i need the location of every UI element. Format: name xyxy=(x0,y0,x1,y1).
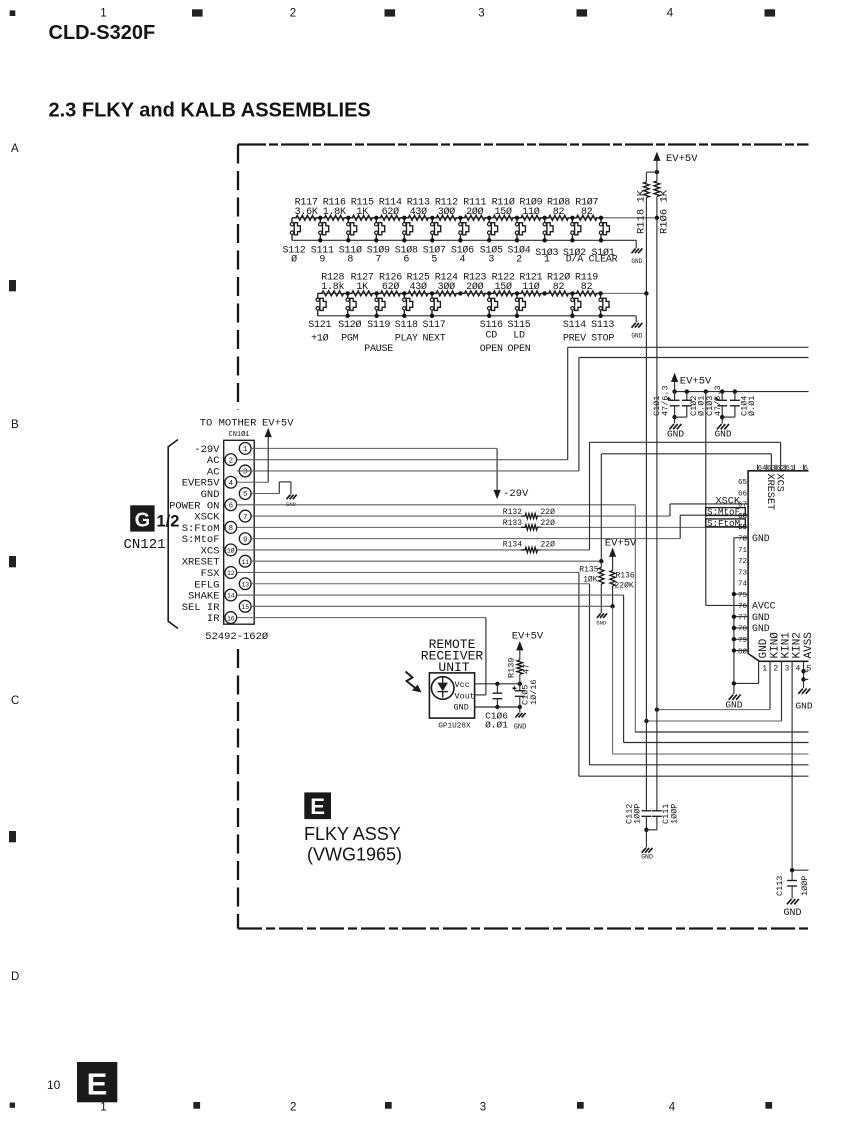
wire XSCK rise to IC pin 67 xyxy=(669,504,671,516)
resistor R110 xyxy=(489,197,517,221)
wire pin10 XCS with resistor R134 220 xyxy=(237,540,589,552)
remote receiver unit heading xyxy=(421,637,484,675)
AVSS pin joints and ground xyxy=(795,669,812,712)
svg-text:76: 76 xyxy=(738,603,748,611)
wire pin14 SHAKE to bus2 xyxy=(237,594,623,596)
connector CN101 body xyxy=(224,440,255,624)
IC bottom pin names GND KIN0 KIN1 KIN2 AVSS xyxy=(758,632,815,659)
svg-text:52492-162Ø: 52492-162Ø xyxy=(205,631,268,643)
svg-text:PGM: PGM xyxy=(341,334,359,345)
svg-text:1: 1 xyxy=(544,255,550,266)
svg-text:CN1Ø1: CN1Ø1 xyxy=(229,430,250,439)
resistor R136 220K pull-up from EV+5V xyxy=(605,538,637,607)
reference box G 1/2 xyxy=(130,505,179,531)
svg-text:69: 69 xyxy=(738,524,747,532)
svg-text:GND: GND xyxy=(631,333,642,340)
svg-text:E: E xyxy=(310,794,325,819)
switch S105 xyxy=(480,216,503,266)
svg-text:Ø.Ø1: Ø.Ø1 xyxy=(485,719,508,730)
svg-text:R135: R135 xyxy=(579,566,598,575)
svg-text:82: 82 xyxy=(581,207,593,218)
svg-text:74: 74 xyxy=(738,581,748,589)
junction row2 chain to R118 xyxy=(644,291,648,295)
resistor R108 xyxy=(545,197,573,221)
wire row2 net vertical to C112 xyxy=(645,293,647,810)
svg-text:GND: GND xyxy=(641,854,653,861)
svg-text:1Ø: 1Ø xyxy=(227,547,235,555)
svg-text:3: 3 xyxy=(480,1102,486,1114)
capacitor C106 0.01 xyxy=(485,684,508,731)
svg-text:GND: GND xyxy=(667,429,684,440)
svg-text:1: 1 xyxy=(100,8,106,20)
svg-text:79: 79 xyxy=(738,637,747,645)
svg-text:3: 3 xyxy=(785,664,790,673)
wire pin2 AC xyxy=(237,459,568,461)
svg-text:13: 13 xyxy=(241,581,249,588)
svg-text:62: 62 xyxy=(776,465,785,473)
wire KIN2 stub to page edge xyxy=(792,869,808,871)
svg-text:47/6.3: 47/6.3 xyxy=(713,385,723,416)
resistor R139 47 from EV+5V xyxy=(507,631,544,684)
svg-text:B: B xyxy=(11,419,19,431)
svg-text:15: 15 xyxy=(241,604,249,611)
switch S101 xyxy=(589,216,618,266)
svg-text:EV+5V: EV+5V xyxy=(512,631,544,643)
resistor R113 xyxy=(404,198,432,221)
switch S113 xyxy=(591,291,614,344)
svg-text:4: 4 xyxy=(667,8,674,20)
CN101 pin 12 FSX xyxy=(201,567,237,580)
resistor R123 xyxy=(460,273,489,296)
svg-text:XCS: XCS xyxy=(201,545,220,557)
junction XRESET / R135 xyxy=(599,559,603,563)
svg-text:KIN2: KIN2 xyxy=(792,632,804,658)
svg-text:AVCC: AVCC xyxy=(752,601,776,612)
svg-text:S118: S118 xyxy=(395,320,418,331)
resistor R116 xyxy=(320,198,348,221)
svg-text:C113: C113 xyxy=(775,876,785,896)
svg-text:CN121: CN121 xyxy=(124,537,166,553)
switch S119 xyxy=(367,291,390,331)
svg-text:7Ø: 7Ø xyxy=(738,535,748,544)
svg-text:82: 82 xyxy=(581,282,593,293)
CN101 pin 15 SEL IR xyxy=(182,600,251,613)
ground C105 receiver xyxy=(519,707,521,713)
svg-text:+1Ø: +1Ø xyxy=(311,333,329,345)
svg-text:22Ø: 22Ø xyxy=(541,540,556,549)
svg-text:AC: AC xyxy=(207,466,220,478)
svg-text:2: 2 xyxy=(516,255,522,266)
svg-text:11: 11 xyxy=(241,559,249,566)
IC top pin ticks xyxy=(758,465,804,471)
svg-text:3ØØ: 3ØØ xyxy=(438,206,456,218)
resistor R119 xyxy=(572,273,600,296)
svg-text:Vout: Vout xyxy=(455,691,475,701)
svg-text:R132: R132 xyxy=(503,508,522,517)
row1 bottom rail wire xyxy=(292,239,636,241)
svg-text:1ØØP: 1ØØP xyxy=(669,804,679,824)
assembly dashed border xyxy=(238,145,809,929)
svg-text:AVSS: AVSS xyxy=(803,632,815,659)
svg-text:1ØØP: 1ØØP xyxy=(633,804,643,824)
svg-text:63: 63 xyxy=(767,465,776,473)
svg-text:1.8K: 1.8K xyxy=(323,207,346,218)
svg-text:IR: IR xyxy=(207,613,220,625)
svg-text:9: 9 xyxy=(243,536,247,544)
-29V feed arrow xyxy=(494,448,530,500)
capacitor C111 100P xyxy=(646,804,679,830)
resistor R115 xyxy=(348,198,376,221)
capacitor C105 10/16 xyxy=(512,679,539,707)
svg-text:S121: S121 xyxy=(308,320,331,331)
CN101 pin 3 AC xyxy=(207,465,251,478)
svg-text:FLKY ASSY: FLKY ASSY xyxy=(304,824,401,844)
top margin column markers xyxy=(10,8,775,20)
switch S116 xyxy=(480,291,503,331)
wire pin8 S:FtoM with resistor R133 220 xyxy=(237,519,748,530)
svg-text:EV+5V: EV+5V xyxy=(262,417,294,429)
resistor R122 xyxy=(489,273,517,296)
svg-text:GND: GND xyxy=(514,724,527,732)
svg-text:XSCK: XSCK xyxy=(194,512,220,524)
svg-text:78: 78 xyxy=(738,626,747,634)
svg-text:PLAY: PLAY xyxy=(395,334,418,345)
svg-text:12: 12 xyxy=(227,570,235,577)
ground C113 xyxy=(787,899,792,904)
svg-text:82: 82 xyxy=(553,282,565,293)
svg-text:(VWG1965): (VWG1965) xyxy=(307,845,402,865)
IC top pin numbers 64-60 xyxy=(758,465,808,473)
CN101 pin 5 GND xyxy=(201,488,252,501)
svg-text:A: A xyxy=(11,143,19,155)
svg-text:S12Ø: S12Ø xyxy=(338,319,361,331)
svg-text:S113: S113 xyxy=(591,320,614,331)
resistor R109 xyxy=(517,197,545,221)
svg-text:FSX: FSX xyxy=(201,568,221,580)
switch S104 xyxy=(507,216,530,266)
svg-text:6: 6 xyxy=(403,255,409,266)
resistor R114 xyxy=(376,198,404,221)
svg-text:S:MtoF: S:MtoF xyxy=(707,507,740,518)
svg-text:43Ø: 43Ø xyxy=(410,206,428,218)
wire pin7 XSCK with resistor R132 220 xyxy=(251,508,670,519)
svg-text:2: 2 xyxy=(290,8,296,20)
switch S103 xyxy=(535,216,558,266)
CN101 pin 4 EVER5V xyxy=(182,476,237,489)
svg-text:2: 2 xyxy=(773,664,778,673)
wire XRESET rise to IC pin 63 xyxy=(600,454,602,561)
EV+5V supply arrow for rail xyxy=(671,373,712,392)
svg-text:C: C xyxy=(11,695,19,707)
row1 ground xyxy=(631,240,642,265)
svg-text:R133: R133 xyxy=(503,519,522,528)
EV+5V decoupling rail wire xyxy=(675,391,809,393)
svg-text:GND: GND xyxy=(752,623,770,634)
svg-text:G: G xyxy=(135,510,151,532)
svg-text:GND: GND xyxy=(795,701,812,712)
svg-text:7: 7 xyxy=(243,514,247,522)
wire pin15 SEL IR to bus3 xyxy=(251,605,612,607)
ground C111 C112 xyxy=(642,848,646,853)
wire AVCC from rail to IC pin 76 xyxy=(705,392,707,606)
switch S117 xyxy=(422,291,445,344)
svg-text:S116: S116 xyxy=(480,320,503,331)
svg-text:AC: AC xyxy=(207,455,220,467)
switch S102 xyxy=(563,216,586,266)
svg-text:14: 14 xyxy=(227,593,235,600)
resistor R121 xyxy=(517,273,545,296)
svg-text:1K: 1K xyxy=(356,282,368,293)
switch S118 xyxy=(395,291,418,344)
svg-text:62Ø: 62Ø xyxy=(382,281,400,293)
svg-text:SHAKE: SHAKE xyxy=(188,591,220,603)
resistor R124 xyxy=(432,273,460,296)
switch S110 xyxy=(339,216,362,266)
wire receiver GND xyxy=(475,706,520,708)
svg-text:47: 47 xyxy=(522,664,532,674)
svg-text:4: 4 xyxy=(229,480,234,488)
switch S106 xyxy=(451,216,474,266)
svg-text:S:FtoM: S:FtoM xyxy=(182,523,220,535)
row2 ground xyxy=(631,316,642,340)
svg-text:6: 6 xyxy=(229,503,233,511)
IC bottom pin numbers 1-5 xyxy=(762,664,811,673)
svg-text:PREV: PREV xyxy=(563,334,586,345)
svg-text:GND: GND xyxy=(631,258,642,265)
svg-text:1Ø/16: 1Ø/16 xyxy=(529,679,539,705)
switch S107 xyxy=(423,216,446,266)
switch S111 xyxy=(311,216,334,266)
wire KIN0 from row1 net xyxy=(657,709,770,711)
capacitor C113 100P xyxy=(775,870,810,898)
svg-text:4: 4 xyxy=(796,664,801,673)
CN101 pin 6 POWER ON xyxy=(169,499,237,512)
infrared beam arrow xyxy=(406,672,422,693)
bottom margin markers and page number xyxy=(10,1062,772,1114)
svg-text:GND: GND xyxy=(752,533,770,544)
svg-text:8: 8 xyxy=(229,525,233,533)
svg-text:8: 8 xyxy=(347,255,353,266)
svg-text:22ØK: 22ØK xyxy=(615,582,634,591)
resistor R125 xyxy=(404,273,432,296)
svg-text:D: D xyxy=(11,971,19,983)
svg-text:PAUSE: PAUSE xyxy=(364,344,393,355)
svg-text:OPEN: OPEN xyxy=(480,344,503,355)
svg-text:NEXT: NEXT xyxy=(422,334,445,345)
wire KIN1 from row2 net xyxy=(646,720,781,722)
svg-text:10: 10 xyxy=(47,1078,61,1092)
svg-text:3.6K: 3.6K xyxy=(295,207,318,218)
svg-text:TO MOTHER: TO MOTHER xyxy=(200,417,257,429)
svg-text:GND: GND xyxy=(783,908,801,919)
svg-text:SEL IR: SEL IR xyxy=(182,602,221,614)
svg-text:GND: GND xyxy=(454,703,469,713)
wire row1 net vertical to C111 xyxy=(656,218,658,811)
wire receiver Vcc xyxy=(475,683,520,685)
wire pin11 XRESET xyxy=(251,560,601,562)
svg-text:EV+5V: EV+5V xyxy=(680,376,712,388)
svg-text:68: 68 xyxy=(738,513,747,521)
wire XCS rise to IC pin 62 xyxy=(589,442,591,550)
svg-text:3: 3 xyxy=(243,469,247,477)
left margin row markers xyxy=(9,143,19,983)
svg-text:1.8k: 1.8k xyxy=(321,281,344,293)
capacitor C103 47/6.3 xyxy=(705,385,727,423)
svg-text:XCS: XCS xyxy=(773,474,784,492)
svg-text:2: 2 xyxy=(290,1102,296,1114)
svg-text:R136: R136 xyxy=(616,572,635,581)
wire pin16 IR to remote receiver Vout xyxy=(237,617,486,619)
svg-text:62Ø: 62Ø xyxy=(382,206,400,218)
svg-text:3: 3 xyxy=(478,8,484,20)
svg-text:GND: GND xyxy=(752,612,770,623)
ground C101 C102 xyxy=(669,424,674,429)
svg-text:S:FtoM: S:FtoM xyxy=(707,518,740,529)
svg-text:75: 75 xyxy=(738,592,748,600)
resistor R120 xyxy=(545,272,573,296)
svg-text:22Ø: 22Ø xyxy=(541,508,556,517)
svg-text:43Ø: 43Ø xyxy=(410,281,428,293)
svg-text:GND: GND xyxy=(201,489,220,501)
resistor R127 xyxy=(348,273,377,296)
connector group bracket xyxy=(168,440,178,629)
svg-text:2ØØ: 2ØØ xyxy=(466,206,484,218)
wire pin1 -29V xyxy=(251,447,497,449)
svg-text:1ØK: 1ØK xyxy=(583,576,598,585)
svg-text:S119: S119 xyxy=(367,320,390,331)
switch function labels PAUSE CD LD OPEN OPEN xyxy=(364,330,531,355)
assembly reference box E xyxy=(304,792,331,819)
svg-text:POWER ON: POWER ON xyxy=(169,500,219,512)
switch S112 xyxy=(282,218,305,266)
svg-text:OPEN: OPEN xyxy=(507,344,530,355)
CN101 pin 14 SHAKE xyxy=(188,589,237,602)
CN101 pin 13 EFLG xyxy=(194,578,251,591)
svg-text:XRESET: XRESET xyxy=(764,474,775,511)
IC left pin numbers 65-80 xyxy=(738,479,748,656)
junction row1 chain to R106 xyxy=(655,216,659,220)
row2 chain wire xyxy=(318,292,647,294)
wire receiver Vout to IR xyxy=(475,694,486,696)
switch S115 xyxy=(507,291,530,331)
svg-text:D/A: D/A xyxy=(566,254,584,266)
svg-text:Ø.Ø1: Ø.Ø1 xyxy=(747,396,757,416)
svg-text:R139: R139 xyxy=(507,658,517,678)
wire pin5 GND jog xyxy=(251,482,297,508)
svg-text:1: 1 xyxy=(100,1102,106,1114)
svg-text:1: 1 xyxy=(243,446,248,454)
svg-text:EVER5V: EVER5V xyxy=(182,478,221,490)
svg-text:R1Ø6 1K: R1Ø6 1K xyxy=(658,189,670,234)
svg-text:S117: S117 xyxy=(422,320,445,331)
svg-text:1/2: 1/2 xyxy=(157,513,180,531)
svg-text:Ø: Ø xyxy=(291,254,297,266)
svg-text:-29V: -29V xyxy=(503,488,529,500)
svg-text:CLEAR: CLEAR xyxy=(589,255,618,266)
svg-text:GP1U28X: GP1U28X xyxy=(438,722,471,730)
capacitor C104 0.01 xyxy=(722,392,757,418)
svg-text:R118 1K: R118 1K xyxy=(636,189,648,234)
svg-text:64: 64 xyxy=(758,465,767,473)
wire pin6 POWER ON to bus1 xyxy=(237,504,635,506)
switch S114 xyxy=(563,291,586,344)
switch S120 xyxy=(338,291,361,344)
svg-text:1ØØP: 1ØØP xyxy=(800,876,810,896)
ground C103 C104 xyxy=(717,424,722,429)
svg-text:15Ø: 15Ø xyxy=(494,281,512,293)
svg-text:R134: R134 xyxy=(503,540,522,549)
IC ground bus from pin 70 xyxy=(725,538,748,711)
svg-text:EFLG: EFLG xyxy=(194,579,219,591)
svg-text:6: 6 xyxy=(804,465,808,473)
resistor R111 xyxy=(460,198,489,221)
svg-text:XRESET: XRESET xyxy=(182,557,220,569)
svg-text:GND: GND xyxy=(758,638,770,658)
svg-text:16: 16 xyxy=(227,615,235,622)
wire pin3 AC xyxy=(237,470,579,472)
remote receiver body GP1U28X xyxy=(429,673,475,730)
svg-text:47/6.3: 47/6.3 xyxy=(660,385,670,416)
svg-text:5: 5 xyxy=(431,255,437,266)
CN101 pin 7 XSCK xyxy=(194,510,251,523)
svg-text:4: 4 xyxy=(669,1102,676,1114)
IC pin 68 boxed label S:MtoF xyxy=(706,507,746,518)
svg-text:CD: CD xyxy=(485,330,497,341)
resistor R126 xyxy=(377,273,405,296)
svg-text:2: 2 xyxy=(229,457,233,465)
IC bottom pin stubs 1-5 xyxy=(732,661,804,870)
svg-text:73: 73 xyxy=(738,569,748,577)
svg-text:1K: 1K xyxy=(357,207,369,218)
svg-text:3ØØ: 3ØØ xyxy=(438,281,456,293)
CN101 pin 9 S:MtoF xyxy=(182,533,251,546)
svg-text:77: 77 xyxy=(738,614,747,622)
svg-text:5: 5 xyxy=(807,664,812,673)
IC U-mcu body outline xyxy=(748,471,808,662)
CN101 pin 10 XCS xyxy=(201,544,237,557)
svg-text:STOP: STOP xyxy=(591,334,614,345)
capacitor C101 47/6.3 xyxy=(652,385,680,423)
row2 node joints without switches xyxy=(458,291,462,295)
switch S109 xyxy=(367,216,390,266)
resistor R118 1K xyxy=(636,172,650,293)
resistor R128 xyxy=(318,273,348,296)
svg-text:E: E xyxy=(87,1067,108,1102)
svg-text:11Ø: 11Ø xyxy=(522,281,540,293)
CN101 pin 11 XRESET xyxy=(182,555,251,568)
svg-text:9: 9 xyxy=(319,255,325,266)
CN101 pin 16 IR xyxy=(207,612,237,625)
svg-text:61: 61 xyxy=(785,465,794,473)
CN101 pin 2 AC xyxy=(207,454,237,467)
svg-text:-29V: -29V xyxy=(194,444,220,456)
svg-text:GND: GND xyxy=(725,700,742,711)
resistor R112 xyxy=(432,198,460,221)
svg-text:KINØ: KINØ xyxy=(769,632,781,659)
row1 chain wire xyxy=(292,217,657,219)
row2 bottom rail wire xyxy=(318,315,637,317)
svg-text:LD: LD xyxy=(513,330,525,341)
svg-text:S115: S115 xyxy=(507,320,530,331)
svg-text:EV+5V: EV+5V xyxy=(605,538,637,550)
CN101 pin 1 -29V xyxy=(194,443,251,456)
svg-text:5: 5 xyxy=(243,491,247,499)
resistor R106 1K xyxy=(654,172,670,234)
wire pin12 FSX to bus5 xyxy=(237,571,579,573)
svg-text:7: 7 xyxy=(375,255,381,266)
svg-text:EV+5V: EV+5V xyxy=(666,153,698,165)
svg-text:Vcc: Vcc xyxy=(455,680,470,690)
